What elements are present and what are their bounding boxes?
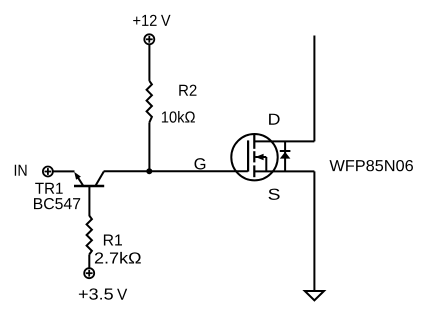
part label WFP85N06	[330, 160, 414, 171]
wire R2 to node	[148, 122, 150, 171]
wire drain up	[313, 36, 315, 142]
label IN	[15, 165, 27, 176]
resistor R1	[87, 216, 92, 255]
label +12 V	[133, 15, 156, 26]
wire R1 to +3.5V	[88, 254, 90, 267]
mosfet gate bar	[247, 140, 249, 171]
transistor TR1 emitter arrowhead	[74, 172, 81, 180]
value 10kΩ	[162, 111, 195, 123]
label +3.5 V	[79, 288, 113, 299]
resistor R2	[147, 81, 152, 123]
body diode wire	[284, 141, 286, 171]
label R2	[179, 85, 196, 96]
junction node	[146, 168, 152, 174]
label TR1	[35, 183, 63, 194]
wire gate net	[104, 170, 248, 172]
mosfet body circle	[231, 134, 277, 180]
body diode cathode bar	[280, 150, 291, 152]
terminal IN	[43, 167, 53, 177]
pin label D	[269, 114, 280, 125]
label R1	[104, 234, 122, 245]
wire +12V to R2	[148, 45, 150, 81]
mosfet substrate arrow	[255, 154, 266, 172]
node label G	[195, 158, 206, 169]
mosfet channel segments	[253, 135, 255, 177]
terminal +12V	[144, 34, 154, 44]
pin label S	[269, 189, 280, 200]
wire IN to base arrow	[54, 170, 75, 172]
mosfet source tap wire	[254, 170, 314, 172]
label BC547	[34, 198, 80, 209]
wire source down	[313, 171, 315, 291]
ground	[305, 291, 324, 300]
terminal +3.5V	[84, 268, 94, 278]
transistor TR1	[74, 172, 104, 217]
value 2.7kΩ	[95, 252, 141, 264]
mosfet drain tap wire	[254, 140, 314, 142]
body diode triangle	[280, 152, 291, 159]
